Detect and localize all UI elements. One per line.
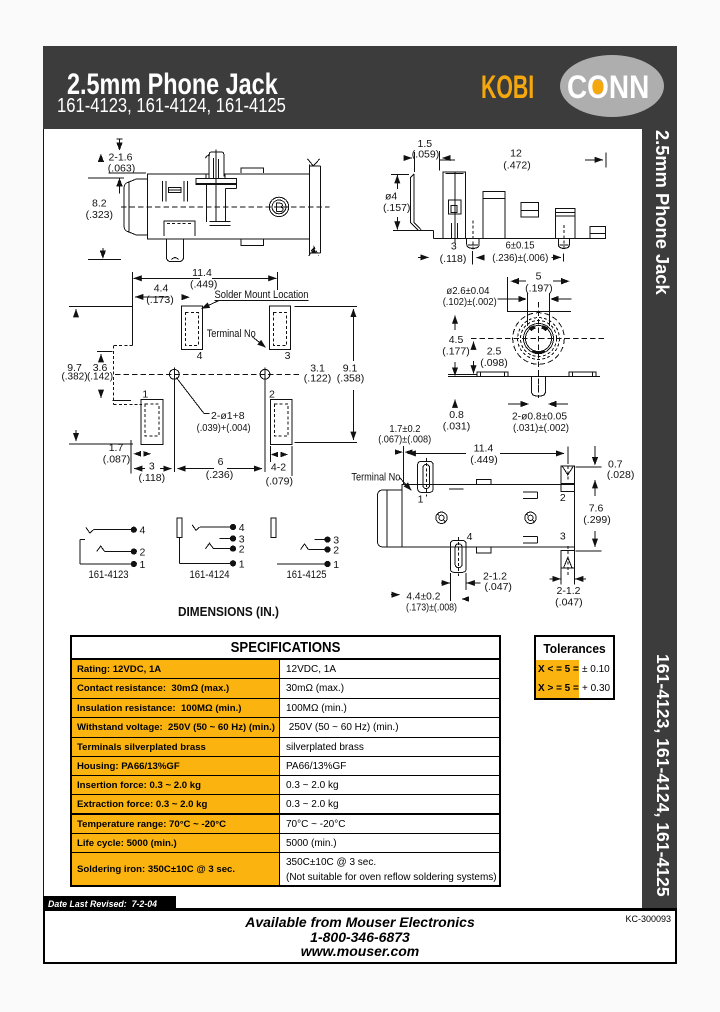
svg-text:ø4: ø4 bbox=[385, 190, 397, 202]
svg-text:(.382): (.382) bbox=[61, 371, 87, 382]
schematic 161-4124 terminal dots bbox=[230, 524, 235, 529]
side view circle inner contact bbox=[275, 202, 277, 211]
pad 3 outline bbox=[270, 306, 291, 350]
svg-text:Terminal No: Terminal No bbox=[207, 328, 256, 340]
footprint centerline bbox=[115, 373, 302, 375]
pad 2 crossbar bbox=[561, 483, 575, 485]
svg-text:2: 2 bbox=[560, 492, 566, 504]
side view bottom pin bbox=[166, 239, 183, 262]
svg-text:(.047): (.047) bbox=[555, 596, 582, 608]
schematic 161-4125 contact 2 bbox=[301, 544, 309, 550]
dim 1.7 extension line bbox=[130, 440, 132, 474]
dim 7.6 arrows bbox=[594, 480, 596, 496]
front view pin centerline bbox=[538, 374, 540, 400]
schematic 161-4124 switch 4 bbox=[192, 525, 200, 531]
svg-text:4: 4 bbox=[197, 350, 203, 362]
svg-text:(.197): (.197) bbox=[525, 282, 552, 294]
svg-text:2-1.2: 2-1.2 bbox=[557, 585, 581, 597]
schematic 161-4123 switch 4 bbox=[86, 527, 94, 533]
front view bottom pin bbox=[532, 377, 546, 396]
svg-text:2-ø1+8: 2-ø1+8 bbox=[211, 410, 245, 422]
svg-text:1: 1 bbox=[239, 558, 245, 570]
svg-text:(.047): (.047) bbox=[485, 581, 512, 593]
side view switch pin bbox=[209, 152, 224, 178]
dim 3 ftp arrows bbox=[134, 468, 145, 470]
svg-text:5: 5 bbox=[536, 270, 542, 282]
terminal no leader bbox=[252, 337, 266, 348]
dim 7.6 ext top bbox=[576, 466, 602, 468]
top view left pin dashed centerline bbox=[472, 221, 474, 251]
dim 1.7 arrows bbox=[133, 451, 141, 457]
svg-text:1.7: 1.7 bbox=[109, 442, 124, 454]
svg-text:(.236)±(.006): (.236)±(.006) bbox=[492, 252, 548, 264]
tolerances table bbox=[534, 635, 615, 700]
front view base line bbox=[448, 376, 600, 378]
svg-text:4.4: 4.4 bbox=[154, 282, 169, 294]
svg-text:161-4124: 161-4124 bbox=[190, 569, 230, 581]
top view baseline bbox=[393, 229, 434, 231]
svg-text:6: 6 bbox=[218, 456, 224, 468]
terminal no leader E bbox=[400, 478, 412, 491]
hole 1 symbol bbox=[169, 369, 179, 379]
side view body outline bbox=[148, 174, 310, 239]
side view circle detail bbox=[269, 197, 288, 216]
dim 2-1.6 arrow at body bbox=[116, 178, 122, 187]
dark header band bbox=[43, 46, 677, 129]
svg-text:11.4: 11.4 bbox=[474, 442, 494, 454]
top view right pin bbox=[558, 239, 569, 249]
svg-text:(.358): (.358) bbox=[337, 372, 364, 384]
svg-text:(.173)±(.008): (.173)±(.008) bbox=[406, 602, 457, 614]
svg-text:1: 1 bbox=[333, 559, 339, 571]
side view switch pin inner lines bbox=[213, 158, 215, 178]
svg-text:1: 1 bbox=[140, 559, 146, 571]
top view middle block bbox=[483, 192, 505, 239]
dim 2-1.2 pad3 arrows bbox=[550, 578, 561, 580]
bottom view bottom tab bbox=[476, 547, 491, 553]
svg-text:(.059): (.059) bbox=[412, 148, 439, 160]
svg-text:(.079): (.079) bbox=[266, 475, 293, 487]
svg-text:(.031): (.031) bbox=[443, 420, 470, 432]
svg-text:(.118): (.118) bbox=[440, 253, 467, 265]
svg-text:DIMENSIONS (IN.): DIMENSIONS (IN.) bbox=[178, 605, 279, 619]
bottom view top inner mark bbox=[449, 488, 464, 490]
svg-text:2: 2 bbox=[333, 545, 339, 557]
bottom view right inner bracket bbox=[523, 491, 538, 493]
svg-text:4-2: 4-2 bbox=[271, 462, 286, 474]
side view inner lower bracket bbox=[164, 221, 195, 236]
schematic 161-4125 terminal dots bbox=[325, 537, 330, 542]
svg-text:(.173): (.173) bbox=[146, 294, 173, 306]
dim o2.6 arrows bbox=[497, 298, 523, 300]
svg-text:2.5: 2.5 bbox=[487, 346, 502, 358]
dim 1.7pm arrows bbox=[395, 449, 403, 454]
svg-text:(.028): (.028) bbox=[607, 469, 634, 481]
svg-text:8.2: 8.2 bbox=[92, 198, 107, 210]
svg-text:4.4±0.2: 4.4±0.2 bbox=[406, 590, 440, 602]
front view dashed circles bbox=[513, 313, 565, 365]
svg-text:3: 3 bbox=[560, 531, 566, 543]
svg-text:(.449): (.449) bbox=[470, 454, 497, 466]
pad 1 centerline bbox=[425, 458, 427, 497]
dim 9.1 line bbox=[352, 309, 354, 318]
Mouser line 3 bbox=[45, 943, 675, 959]
doc number bbox=[625, 914, 671, 924]
svg-text:2-ø0.8±0.05: 2-ø0.8±0.05 bbox=[512, 410, 567, 422]
dim 2-o0.8 arrows bbox=[508, 403, 525, 405]
logo ellipse bbox=[560, 55, 664, 117]
bottom view lower inner bracket bbox=[523, 536, 538, 538]
svg-text:161-4123: 161-4123 bbox=[89, 569, 129, 581]
dim 1.5 extension lines bbox=[414, 152, 416, 172]
front view top line bbox=[507, 310, 571, 312]
sidebar vertical part numbers bbox=[652, 654, 673, 897]
dim 3.6 arrows bbox=[100, 354, 102, 361]
specifications table bbox=[70, 635, 501, 887]
svg-text:4: 4 bbox=[239, 522, 245, 534]
svg-text:(.031)±(.002): (.031)±(.002) bbox=[513, 422, 569, 434]
svg-text:2: 2 bbox=[140, 547, 146, 559]
dim 2-1.2 pad4 ext bbox=[449, 573, 451, 601]
svg-text:0.8: 0.8 bbox=[449, 409, 464, 421]
svg-text:(.087): (.087) bbox=[103, 453, 130, 465]
svg-text:4.5: 4.5 bbox=[449, 334, 464, 346]
side view right flange top V tab bbox=[308, 159, 320, 166]
right sidebar bbox=[642, 46, 677, 910]
dim 6 arrow bbox=[551, 256, 561, 258]
dim 1.5 arrows bbox=[404, 157, 412, 159]
sidebar vertical title bbox=[651, 130, 673, 295]
svg-text:(.177): (.177) bbox=[442, 345, 469, 357]
svg-text:6±0.15: 6±0.15 bbox=[506, 239, 535, 251]
svg-text:7.6: 7.6 bbox=[589, 502, 604, 514]
svg-text:(.157): (.157) bbox=[383, 202, 410, 214]
dim 4-2 arrows bbox=[271, 452, 279, 458]
svg-text:11.4: 11.4 bbox=[192, 267, 212, 279]
svg-text:(.122): (.122) bbox=[304, 372, 331, 384]
pad 3 notch bbox=[564, 558, 573, 569]
schematic 161-4123 bracket bbox=[80, 539, 85, 541]
front view right tab bbox=[569, 372, 596, 377]
date last revised bar bbox=[43, 896, 176, 912]
top view floating plate bbox=[521, 202, 539, 217]
top view right block bbox=[556, 209, 575, 239]
top view right pin dashed centerline bbox=[563, 225, 565, 250]
front view dim 5 arrows bbox=[510, 278, 519, 284]
top view tall component window bbox=[448, 200, 461, 214]
dim 12 line bbox=[440, 159, 455, 161]
svg-text:1: 1 bbox=[142, 389, 148, 401]
front view left tab bbox=[477, 372, 508, 377]
dim 1.7pm extension bbox=[403, 446, 405, 485]
pad 4 outline bbox=[182, 306, 203, 350]
schematic 161-4124 line 3 bbox=[220, 538, 231, 540]
svg-text:(.472): (.472) bbox=[503, 159, 530, 171]
side view inner block box bbox=[168, 188, 181, 193]
pad 2 outline bbox=[270, 400, 292, 445]
schematic 161-4125 line 1 bbox=[277, 563, 325, 565]
dim 9.7 arrows bbox=[75, 309, 77, 316]
dim 2-1.6 top tick bbox=[117, 138, 123, 140]
dim 7.6 ext bottom bbox=[576, 550, 602, 552]
dim 2-1.6 up arrow bbox=[98, 154, 104, 163]
schematic 161-4125 line 3 bbox=[314, 539, 325, 541]
pad 2 notch bbox=[563, 467, 574, 475]
dim 8.2 top extension line bbox=[88, 177, 124, 179]
side view sleeve face line bbox=[128, 182, 130, 233]
top view right end bracket bbox=[590, 227, 605, 239]
hole leader 2-o1 bbox=[176, 377, 204, 413]
footprint body dashed outline bbox=[114, 345, 133, 347]
side view bottom pin hook bbox=[172, 258, 179, 260]
side view pin lower legs bbox=[206, 185, 208, 222]
dim 4.5 arrows bbox=[454, 316, 456, 330]
screw boss left bbox=[436, 512, 447, 523]
technical drawings bbox=[43, 129, 642, 896]
top view tall component lower slots bbox=[451, 223, 453, 238]
hole extension lines bbox=[173, 381, 175, 473]
pad 1 outline bbox=[141, 400, 163, 445]
dim o4 arrows bbox=[396, 175, 398, 183]
bottom view top tab bbox=[476, 480, 491, 485]
svg-text:4: 4 bbox=[467, 531, 473, 543]
top view left pin bbox=[467, 239, 480, 249]
side view top mounting tab bbox=[241, 168, 264, 173]
svg-text:ø2.6±0.04: ø2.6±0.04 bbox=[446, 285, 489, 297]
top view sleeve bbox=[410, 174, 418, 230]
svg-text:(.323): (.323) bbox=[86, 209, 113, 221]
side view switch pin hook bbox=[206, 155, 210, 158]
pad 4 view E bbox=[450, 541, 466, 573]
schematic 161-4124 plug slot bbox=[177, 518, 182, 538]
side view lower flange lines bbox=[225, 187, 236, 189]
side view inner block lines bbox=[162, 181, 164, 202]
svg-text:(.118): (.118) bbox=[138, 472, 165, 484]
top view tall component inner top line bbox=[446, 173, 464, 175]
svg-text:(.039)+(.004): (.039)+(.004) bbox=[197, 422, 251, 434]
title 2.5mm Phone Jack bbox=[67, 68, 278, 102]
side view right flange bottom dashed tab bbox=[309, 247, 319, 257]
dim 2-1.2 pad4 arrows bbox=[441, 582, 450, 584]
pad 3 view E bbox=[561, 550, 575, 568]
bottom view barrel bbox=[377, 490, 402, 547]
pad 3 centerline E bbox=[567, 546, 569, 576]
bottom view right edge line bbox=[574, 492, 576, 551]
pad 2 inner dashed bbox=[274, 404, 288, 436]
schematic 161-4123 terminal dots bbox=[131, 527, 136, 532]
top view tall component bbox=[443, 172, 466, 239]
svg-text:4: 4 bbox=[140, 525, 146, 537]
solder mount location leader bbox=[202, 301, 220, 309]
pad 2 extension lines bbox=[269, 446, 271, 462]
footprint dim 11.4 line bbox=[134, 277, 200, 279]
dim o2.6 extension lines bbox=[526, 293, 528, 326]
svg-text:1: 1 bbox=[418, 494, 424, 506]
side view contact symbol bbox=[210, 220, 231, 222]
footprint dim 11.4 extension line bbox=[132, 272, 134, 346]
front view ring wedges bbox=[529, 325, 536, 331]
svg-text:2: 2 bbox=[269, 389, 275, 401]
svg-text:161-4125: 161-4125 bbox=[287, 569, 327, 581]
svg-text:12: 12 bbox=[510, 148, 522, 160]
pad 4 inner slot bbox=[455, 544, 462, 568]
svg-text:(.102)±(.002): (.102)±(.002) bbox=[443, 296, 497, 308]
pad 1 inner dashed bbox=[145, 404, 159, 436]
front view crosshair bbox=[538, 302, 540, 396]
side view sleeve barrel bbox=[124, 183, 126, 230]
svg-text:(.142): (.142) bbox=[87, 371, 113, 382]
dim 3 arrows bbox=[418, 256, 429, 258]
Mouser line 1 bbox=[45, 914, 675, 930]
dim 2-1.2 pad3 ext bbox=[560, 568, 562, 585]
side view flange bar bbox=[196, 178, 237, 184]
dim 0.7 arrow bbox=[594, 446, 596, 461]
side view sleeve shoulder bbox=[137, 178, 148, 180]
svg-text:3: 3 bbox=[285, 350, 291, 362]
logo KOBI bbox=[481, 69, 534, 106]
screw boss right bbox=[525, 512, 536, 523]
pad 4 centerline bbox=[457, 537, 459, 576]
dim 8.2 bottom extension line bbox=[88, 258, 121, 260]
side view switch pin center line bbox=[215, 149, 217, 221]
side view right flange plates bbox=[309, 165, 311, 255]
schematic 161-4125 plug slot bbox=[271, 518, 276, 538]
svg-text:Solder Mount Location: Solder Mount Location bbox=[215, 289, 309, 301]
dim 4.4pm arrow bbox=[391, 594, 400, 596]
pad 1 view E bbox=[418, 461, 434, 492]
front view ring bottom arc bbox=[532, 351, 545, 353]
svg-text:2: 2 bbox=[239, 544, 245, 556]
schematic 161-4124 contact 2 bbox=[206, 543, 214, 549]
svg-text:3: 3 bbox=[451, 241, 457, 253]
svg-text:(.067)±(.008): (.067)±(.008) bbox=[378, 434, 431, 446]
side view dashed centerline bbox=[121, 206, 329, 208]
bottom view body outline bbox=[402, 484, 575, 547]
logo O orange disc bbox=[590, 80, 604, 94]
dim 8.2 bottom arrow bbox=[100, 250, 106, 258]
svg-text:(.449): (.449) bbox=[190, 278, 217, 290]
hole 2 symbol bbox=[260, 369, 270, 379]
main white drawing area bbox=[43, 129, 642, 912]
pad 2 view E bbox=[561, 466, 575, 492]
schematic 161-4123 contact 2 bbox=[97, 546, 105, 552]
front view base left step bbox=[448, 374, 477, 376]
Mouser line 2 bbox=[45, 929, 675, 945]
front view dim 5 extension bbox=[507, 277, 509, 311]
svg-text:(.236): (.236) bbox=[206, 469, 233, 481]
dim 11.4E line bbox=[408, 452, 466, 454]
schematic 161-4124 common line bbox=[179, 538, 181, 564]
pad 3 inner dashed bbox=[274, 313, 287, 346]
logo CONN bbox=[567, 69, 649, 106]
svg-text:(.299): (.299) bbox=[583, 514, 610, 526]
svg-text:3: 3 bbox=[149, 460, 155, 472]
side view bottom mounting tab bbox=[241, 239, 264, 245]
footprint dim 4.4 line bbox=[135, 296, 168, 298]
dim 0.8 arrow bbox=[454, 400, 456, 407]
footprint body solid steps bbox=[97, 350, 113, 352]
dim 6 ftp line bbox=[177, 468, 214, 470]
svg-text:Terminal No: Terminal No bbox=[351, 471, 400, 483]
svg-text:(.098): (.098) bbox=[480, 357, 507, 369]
pad 4 inner dashed bbox=[186, 313, 199, 346]
bottom contact strip bbox=[43, 908, 677, 964]
pad 1 inner slot bbox=[423, 465, 430, 489]
dim 2.5 arrows bbox=[473, 342, 475, 348]
front view inner ring bbox=[524, 324, 554, 354]
pad 2 centerline E bbox=[567, 461, 569, 481]
part numbers bbox=[57, 95, 286, 118]
top view tall component center line bbox=[454, 172, 456, 244]
